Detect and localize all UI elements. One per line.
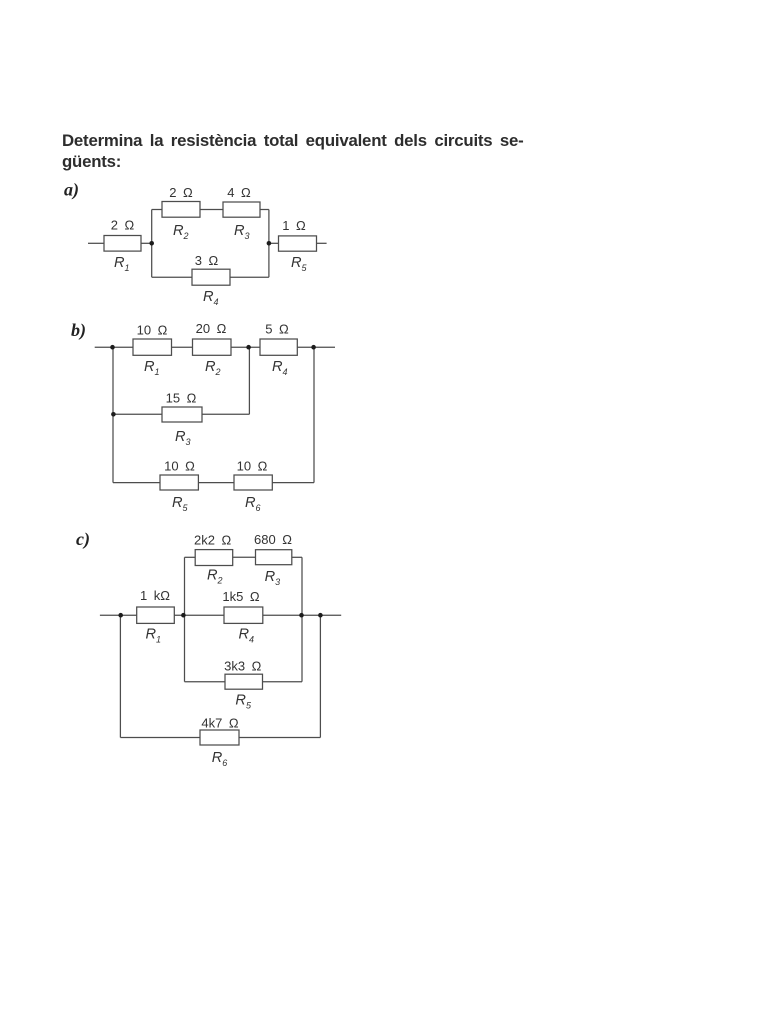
resistor R3 box (15 ohm) [162, 407, 202, 422]
svg-text:15 Ω: 15 Ω [166, 391, 197, 406]
wire: R1 to node A [141, 242, 152, 244]
resistor R3 box (4 ohm) [223, 202, 260, 217]
wire: b) middle vertical [248, 347, 250, 414]
svg-text:R6: R6 [245, 495, 261, 513]
node dot: b) mid-row left node [111, 412, 116, 417]
svg-text:10 Ω: 10 Ω [164, 459, 195, 474]
wire: R3 to inner right vertical [292, 556, 302, 558]
wire: R2 to R4 [231, 346, 260, 348]
svg-text:R4: R4 [239, 627, 255, 645]
node dot: c) node right of R1 [181, 613, 186, 618]
wire: a) left lead [88, 242, 104, 244]
wire: bottom branch left segment [152, 276, 192, 278]
svg-text:1 Ω: 1 Ω [282, 218, 306, 233]
wire: c) inner right vertical [301, 557, 303, 681]
svg-text:R6: R6 [212, 750, 228, 768]
svg-text:R2: R2 [173, 223, 189, 241]
resistor R2 box (2k2 ohm) [195, 550, 233, 566]
wire: R3 to right vertical [260, 209, 269, 211]
svg-text:3 Ω: 3 Ω [195, 253, 219, 268]
svg-text:b): b) [71, 320, 86, 341]
svg-text:20 Ω: 20 Ω [196, 321, 227, 336]
wire: c) outer right vertical [319, 615, 321, 737]
wire: left vertical branch [151, 210, 153, 278]
node dot: c) outer right node [318, 613, 323, 618]
wire: b) left lead [95, 346, 133, 348]
svg-text:10 Ω: 10 Ω [237, 459, 268, 474]
node dot: a) node B [267, 241, 272, 246]
svg-text:3k3 Ω: 3k3 Ω [224, 659, 261, 674]
wire: node B to R5 [269, 242, 279, 244]
svg-text:R3: R3 [265, 569, 281, 587]
wire: b) right lead [297, 346, 335, 348]
svg-text:1 kΩ: 1 kΩ [140, 588, 170, 603]
wire: c) left lead [100, 614, 137, 616]
node dot: b) node between R2 and R4 [246, 345, 251, 350]
wire: b) left vertical [112, 347, 114, 482]
svg-text:a): a) [64, 180, 79, 201]
heading text [62, 130, 524, 174]
svg-text:R5: R5 [291, 255, 308, 273]
svg-text:R1: R1 [144, 359, 160, 377]
node dot: b) right node [311, 345, 316, 350]
wire: c) inner left vertical [184, 557, 186, 681]
svg-text:R3: R3 [234, 223, 250, 241]
svg-text:4k7 Ω: 4k7 Ω [201, 716, 238, 731]
svg-text:5 Ω: 5 Ω [265, 322, 289, 337]
wire: R5 to inner right vertical [263, 681, 303, 683]
wire: R4 to right vertical [230, 276, 269, 278]
node dot: c) far left node [118, 613, 123, 618]
resistor R1 box (1 kohm) [137, 607, 175, 623]
resistor R6 box (4k7 ohm) [200, 730, 239, 745]
wire: top row left segment [185, 556, 196, 558]
resistor R2 box (2 ohm) [162, 202, 200, 218]
svg-text:R5: R5 [235, 693, 252, 711]
wire: a) right lead [317, 242, 327, 244]
svg-text:R2: R2 [207, 568, 223, 586]
svg-text:2 Ω: 2 Ω [169, 185, 193, 200]
svg-text:R4: R4 [203, 289, 219, 307]
wire: R5 row left segment [185, 681, 226, 683]
svg-text:2k2 Ω: 2k2 Ω [194, 532, 231, 547]
node dot: c) inner right node [299, 613, 304, 618]
resistor R4 box (5 ohm) [260, 339, 297, 355]
resistor R3 box (680 ohm) [256, 550, 292, 565]
resistor R5 box (10 ohm) [160, 475, 198, 490]
wire: R5 to R6 [198, 482, 234, 484]
wire: right vertical branch [268, 210, 270, 278]
svg-text:R4: R4 [272, 359, 288, 377]
svg-text:R2: R2 [205, 359, 221, 377]
wire: bottom row left segment [120, 737, 200, 739]
wire: R2 to R3 [200, 209, 223, 211]
resistor R4 box (1k5 ohm) [224, 607, 263, 623]
wire: b) right vertical [313, 347, 315, 482]
wire: top branch left segment [152, 209, 162, 211]
svg-text:10 Ω: 10 Ω [137, 323, 168, 338]
svg-text:1k5 Ω: 1k5 Ω [222, 589, 259, 604]
node dot: b) left node [110, 345, 115, 350]
resistor R1 box (2 ohm) [104, 236, 141, 252]
wire: R1 to R4 [174, 614, 224, 616]
wire: c) right lead [263, 614, 341, 616]
wire: R6 to right vertical [272, 482, 314, 484]
svg-text:680 Ω: 680 Ω [254, 532, 292, 547]
resistor R1 box (10 ohm) [133, 339, 172, 355]
resistor R5 box (3k3 ohm) [225, 674, 263, 689]
wire: mid row left segment [113, 413, 162, 415]
wire: R3 to middle vertical [202, 413, 249, 415]
wire: R1 to R2 [172, 346, 193, 348]
resistor R4 box (3 ohm) [192, 269, 230, 285]
resistor R5 box (1 ohm) [279, 236, 317, 251]
wire: c) outer left vertical [119, 615, 121, 737]
svg-text:c): c) [76, 529, 90, 550]
svg-text:R3: R3 [175, 429, 191, 447]
svg-text:R1: R1 [146, 627, 162, 645]
node dot: a) node A [149, 241, 154, 246]
resistor R2 box (20 ohm) [193, 339, 232, 355]
resistor R6 box (10 ohm) [234, 475, 272, 490]
svg-text:R5: R5 [172, 495, 189, 513]
wire: bottom row left segment [113, 482, 160, 484]
wire: R2 to R3 [233, 556, 256, 558]
svg-text:4 Ω: 4 Ω [227, 185, 251, 200]
wire: R6 to outer right vertical [239, 737, 320, 739]
svg-text:2 Ω: 2 Ω [111, 218, 135, 233]
svg-text:R1: R1 [114, 255, 130, 273]
